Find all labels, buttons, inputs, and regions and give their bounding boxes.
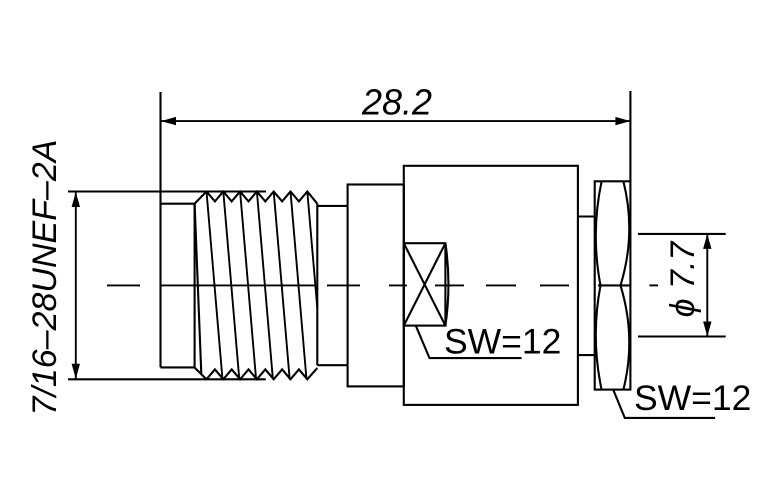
dimension line thread OD (left vertical): [75, 192, 77, 379]
thread crest zigzag bottom: [207, 368, 318, 379]
nut upper face arcs: [596, 182, 602, 286]
neck after thread top: [317, 205, 347, 207]
leader SW=12 upper: [416, 326, 522, 358]
arrow left dim bottom: [72, 364, 80, 379]
hex recess arc: [445, 243, 448, 325]
wire: bottom OD / extension line lower: [68, 378, 266, 380]
chamfer bottom: [161, 367, 207, 379]
dimension line 28.2: [161, 120, 630, 122]
svg-text:7/16–28UNEF–2A: 7/16–28UNEF–2A: [26, 140, 64, 416]
hex recess X diagonal 2: [404, 243, 446, 325]
thread crest zigzag top: [207, 192, 318, 204]
arrow 28.2 left: [161, 117, 176, 125]
hex recess box: [404, 243, 446, 325]
wire: top OD / extension line upper: [68, 190, 266, 192]
flange: [348, 185, 404, 387]
centerline: [107, 284, 658, 286]
svg-text:ϕ 7.7: ϕ 7.7: [664, 241, 702, 318]
body block: [404, 166, 578, 405]
arrow dia bottom: [703, 322, 711, 337]
thread flank helix lines: [207, 192, 318, 380]
extension line right for 28.2: [629, 91, 631, 181]
neck before nut top: [578, 215, 595, 217]
neck after thread bottom: [317, 364, 347, 366]
extension lines for dia 7.7: [638, 233, 726, 235]
arrow dia top: [703, 234, 711, 249]
nut mid edge: [598, 284, 630, 286]
nut outline: [595, 181, 631, 389]
neck before nut bottom: [578, 354, 595, 356]
arrow 28.2 right: [615, 117, 630, 125]
svg-text:SW=12: SW=12: [444, 322, 561, 362]
hex recess X diagonal 1: [404, 243, 446, 325]
dimension line dia 7.7: [706, 234, 708, 337]
connector left face: [159, 92, 161, 367]
svg-text:SW=12: SW=12: [634, 378, 751, 418]
arrow left dim top: [72, 192, 80, 207]
svg-text:28.2: 28.2: [361, 82, 432, 123]
thread start helix: [195, 204, 202, 374]
thread end edge: [316, 204, 318, 366]
nut lower face arcs: [596, 285, 602, 389]
chamfer top: [161, 192, 207, 204]
leader SW=12 lower: [613, 390, 715, 418]
arrows: [72, 117, 712, 379]
thread start edge: [194, 204, 196, 368]
